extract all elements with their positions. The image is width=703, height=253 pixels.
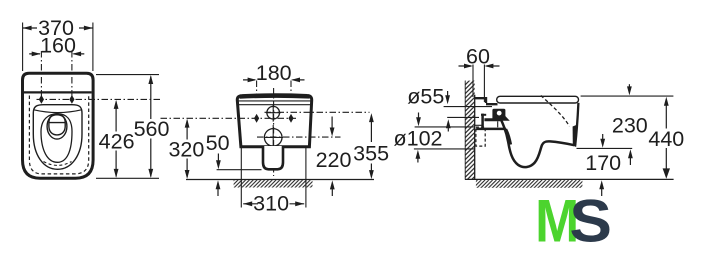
dim 170 upper arrow: [629, 153, 631, 165]
seam line 1: [238, 100, 311, 102]
fixing holes axis horizontal: [161, 117, 297, 119]
dim ø55 upper arrow: [447, 91, 449, 100]
seam line 2: [238, 104, 311, 106]
dim 230 upper arrow: [628, 84, 630, 91]
outlet pipe: [263, 146, 283, 169]
bowl front face: [575, 103, 578, 146]
dim 60 ext lines: [473, 65, 484, 103]
dim 440 upper arrow: [665, 100, 667, 128]
svg-text:ø55: ø55: [407, 85, 444, 109]
ext line bowl bottom: [577, 147, 633, 149]
flush egg chord: [49, 122, 65, 124]
inlet pipe bottom line: [447, 116, 479, 118]
lower hole crosshair: [264, 125, 283, 150]
hinge block: [492, 109, 505, 120]
dim 50 lower arrow: [217, 184, 219, 196]
dim 220 lower arrow: [331, 184, 333, 196]
dim 160 line + arrows: [29, 53, 84, 55]
centerline vertical left (160): [40, 51, 42, 100]
svg-text:180: 180: [256, 61, 292, 85]
dashed arc in bowl bottom: [44, 162, 72, 166]
dim 180 line + arrows: [243, 79, 305, 81]
svg-text:60: 60: [466, 45, 490, 69]
hidden seat curve dashed: [541, 96, 570, 127]
centerline vertical right (160): [71, 51, 73, 100]
ø102 top line: [415, 126, 475, 128]
svg-text:S: S: [569, 188, 612, 253]
dim 560 line + arrows: [150, 77, 152, 177]
svg-text:ø102: ø102: [393, 126, 442, 150]
dim 170 lower arrow: [601, 184, 603, 196]
dim 355 upper arrow: [370, 117, 372, 143]
svg-text:426: 426: [99, 130, 135, 154]
body top band thickener: [240, 95, 310, 99]
svg-text:355: 355: [353, 141, 389, 165]
lower hole axis horizontal: [257, 136, 341, 138]
dim ø55 lower arrow: [447, 123, 449, 132]
dim ø102 lower arrow: [417, 154, 419, 163]
dim 60 line + arrows: [459, 65, 500, 67]
bowl back outer curve: [501, 119, 575, 167]
seat outer ring: [33, 105, 82, 170]
dim 320 line + arrows: [186, 121, 188, 178]
bracket bar upper: [484, 118, 500, 121]
lower hole circle: [264, 129, 282, 147]
wall left edge: [464, 81, 466, 180]
upper hole crosshair: [266, 104, 281, 121]
svg-text:230: 230: [612, 113, 648, 137]
flush egg inner: [49, 115, 65, 135]
svg-text:440: 440: [648, 127, 684, 151]
floor line middle: [186, 179, 374, 181]
diamond marker right: [69, 95, 74, 104]
svg-text:220: 220: [316, 148, 352, 172]
hinge pin: [497, 111, 502, 116]
ext line body bottom right: [96, 177, 159, 179]
dim 440 lower arrow: [665, 148, 667, 169]
dim ø102 upper arrow: [418, 113, 420, 122]
centerline horizontal (hole axis): [37, 98, 161, 100]
ø102 bottom line: [414, 148, 475, 150]
bracket post: [481, 114, 484, 129]
center vertical axis: [273, 88, 275, 176]
dim 220 upper arrow: [331, 117, 333, 132]
dim 180 centerlines: [257, 81, 291, 119]
toilet body outline: [23, 73, 94, 178]
upper hole axis horizontal: [265, 111, 370, 113]
dim 310 line + arrows: [243, 203, 304, 205]
svg-text:160: 160: [40, 34, 76, 58]
ext line body top right: [96, 74, 159, 76]
bowl front wedge: [573, 125, 577, 147]
svg-text:310: 310: [253, 191, 289, 215]
outlet pipe dashed rect: [476, 127, 485, 146]
inlet stub line: [475, 124, 482, 126]
310 extension lines: [241, 148, 306, 208]
bowl opening: [41, 114, 72, 163]
floor hatch middle: [234, 180, 313, 187]
svg-text:170: 170: [585, 151, 621, 175]
svg-text:560: 560: [134, 117, 170, 141]
tank line: [24, 91, 92, 93]
wall right edge: [474, 95, 476, 180]
dim 370 line + arrows: [23, 27, 93, 29]
dim 370 extension lines: [23, 23, 93, 72]
diamond marker left: [39, 95, 44, 104]
bracket bar lower: [476, 128, 506, 131]
dim 355 lower arrow: [370, 164, 372, 175]
flush egg outer: [47, 114, 67, 139]
ext line lid top: [581, 95, 674, 97]
inlet pipe top line: [444, 106, 492, 108]
diamond marker left: [254, 114, 259, 123]
bracket notch: [497, 121, 499, 127]
svg-text:320: 320: [168, 137, 204, 161]
svg-text:50: 50: [206, 131, 230, 155]
diamond marker right: [288, 114, 293, 123]
seat top seam: [34, 110, 82, 113]
hidden dashed inner outline: [29, 96, 88, 174]
body outline front: [237, 95, 311, 147]
floor hatch right: [476, 180, 583, 188]
bowl trap curve: [506, 129, 511, 145]
floor line right: [465, 178, 674, 180]
seat lid: [497, 96, 579, 103]
dim 426 line + arrows: [115, 102, 117, 177]
wall hatch: [465, 81, 475, 180]
dim 50 upper arrow: [217, 154, 219, 167]
upper hole circle: [267, 106, 280, 119]
dim 230 lower arrow: [602, 134, 604, 143]
pipe bottom extension line: [217, 169, 262, 171]
tank top profile: [475, 98, 498, 104]
